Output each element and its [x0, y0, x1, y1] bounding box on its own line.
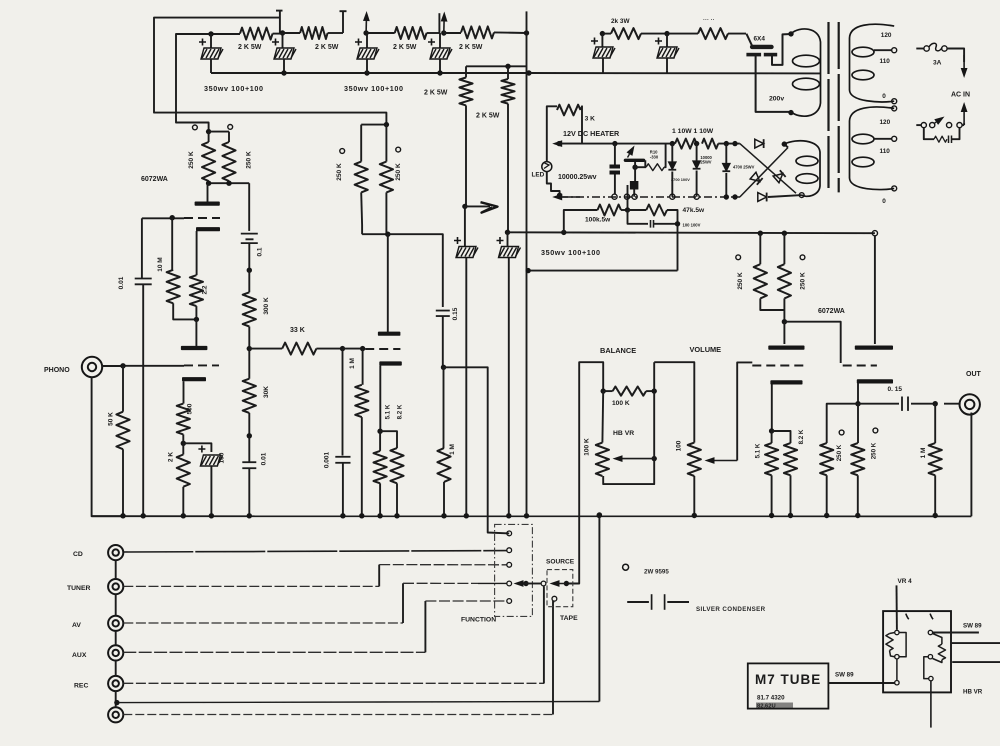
svg-text:0.01: 0.01 — [260, 452, 267, 465]
resistor R18 30K — [248, 349, 250, 379]
VR box internals right — [928, 630, 932, 634]
wire TAPE line — [123, 714, 553, 716]
wire R9 R10 bottoms tie — [209, 182, 250, 184]
svg-text:2k 3W: 2k 3W — [611, 18, 630, 25]
svg-text:1 M: 1 M — [349, 358, 356, 369]
resistor R34 5.1K — [771, 431, 773, 443]
node T4 cathode junction — [855, 401, 860, 406]
jack PHONO — [82, 357, 102, 377]
wire phono to grid — [102, 365, 124, 367]
node tube2 cathode junction — [377, 429, 382, 434]
svg-text:6072WA: 6072WA — [818, 308, 845, 315]
svg-text:8.2 K: 8.2 K — [798, 429, 805, 444]
svg-text:SOURCE: SOURCE — [546, 559, 575, 566]
svg-text:2 K 5W: 2 K 5W — [393, 44, 417, 51]
svg-text:4700 25WV: 4700 25WV — [733, 165, 755, 170]
node C junction with up arrow — [363, 30, 368, 35]
wire volume wiper to grid T3 — [737, 362, 752, 460]
tube U1b grid — [184, 364, 219, 366]
svg-text:100 K: 100 K — [612, 400, 630, 407]
resistor R29 100k.5w — [564, 210, 598, 232]
svg-text:-330: -330 — [650, 155, 659, 160]
resistor R4 2K5W — [444, 32, 461, 34]
transformer heater winding — [784, 141, 820, 197]
VR box external wires — [951, 642, 1000, 644]
wire source to balance riser — [566, 362, 603, 583]
svg-text:250 K: 250 K — [737, 272, 744, 290]
capacitor C12 0.15 coupling — [436, 310, 450, 312]
node T3 plate feed — [782, 319, 787, 324]
wire bridge to heater winding — [784, 144, 788, 147]
svg-text:0.15: 0.15 — [452, 307, 459, 320]
wire phono ground — [92, 377, 123, 517]
capacitor C16 branch — [628, 210, 649, 224]
capacitor C6 360wv (electrolytic) — [505, 230, 510, 235]
resistor R17 33K — [249, 348, 282, 350]
resistor R12 2.2 (cathode) — [190, 275, 203, 306]
wire balance to volume — [653, 362, 655, 391]
svg-text:5.1 K: 5.1 K — [385, 404, 392, 419]
svg-text:CD: CD — [73, 551, 83, 558]
resistor R16 300K — [248, 270, 250, 292]
resistor R25 3K — [557, 105, 581, 116]
svg-text:8.2 K: 8.2 K — [396, 404, 403, 419]
svg-text:PHONO: PHONO — [44, 367, 70, 374]
diode D8 bridge diag2 — [773, 170, 785, 182]
wire tube2 plate drop — [387, 234, 389, 332]
node cathode junction — [181, 441, 186, 446]
jack CD — [108, 545, 123, 560]
capacitor C2 350wv (electrolytic) — [282, 33, 284, 48]
svg-text:250 K: 250 K — [188, 151, 195, 169]
svg-text:SW 89: SW 89 — [963, 623, 982, 630]
heater return bus dash-dot — [562, 196, 580, 198]
resistor R8 2K5W vertical — [507, 66, 509, 79]
svg-text:AV: AV — [72, 622, 81, 629]
capacitor C4 350wv (electrolytic) — [439, 33, 441, 48]
balance pot body — [601, 391, 604, 443]
transformer HV winding — [791, 29, 821, 116]
wire M7 to VR box — [828, 682, 894, 684]
node E junction centre — [524, 30, 529, 35]
wire plate feed to 0.15 riser — [388, 234, 443, 307]
svg-text:250 K: 250 K — [836, 444, 843, 461]
wire ground return line — [119, 702, 599, 703]
svg-text:6072WA: 6072WA — [141, 176, 168, 183]
tube U4 cathode — [857, 379, 893, 383]
svg-text:12V DC HEATER: 12V DC HEATER — [563, 129, 620, 138]
capacitor C5 360wv (electrolytic) — [464, 206, 466, 246]
tube U2 grid — [365, 348, 400, 350]
capacitor C13 10000 25wv — [614, 144, 616, 165]
svg-text:3 K: 3 K — [585, 116, 595, 123]
svg-text:33 K: 33 K — [290, 327, 305, 334]
wire rectifier output riser — [627, 185, 629, 210]
svg-text:250 K: 250 K — [395, 163, 402, 181]
terminal circle 2W9595 — [623, 564, 629, 570]
svg-text:HB VR: HB VR — [613, 430, 634, 437]
node stray dot — [247, 268, 252, 273]
wire node-B stub to top tick — [276, 10, 283, 12]
wire 6X4 right to HV top — [772, 34, 791, 65]
wire centre vertical long — [526, 33, 528, 515]
jack TUNER — [108, 579, 123, 594]
heater bus top y143 with left arrow — [562, 143, 580, 145]
pass transistor emitter arrow — [628, 154, 630, 157]
svg-text:REC: REC — [74, 683, 88, 690]
diode D5 bridge top — [755, 139, 764, 148]
node D junction with up arrow — [441, 30, 446, 35]
power switch — [916, 124, 921, 126]
svg-text:350wv 100+100: 350wv 100+100 — [541, 248, 601, 257]
tube U2 plate — [378, 332, 401, 336]
resistor R14 500 cathode — [177, 404, 190, 435]
node U1b plate junction — [194, 317, 199, 322]
zener D1 black — [634, 167, 636, 181]
resistor R38 1M — [934, 404, 936, 443]
HV centre tap wire y73 — [529, 72, 821, 74]
svg-text:100: 100 — [219, 452, 226, 463]
capacitor C1 350wv (electrolytic) — [210, 34, 212, 48]
svg-text:2 K 5W: 2 K 5W — [424, 90, 448, 97]
silver condenser symbol — [627, 601, 649, 603]
wire heater bus mid — [626, 143, 672, 145]
balance pot bottom loop — [603, 391, 654, 484]
resistor R31 100K balance — [601, 388, 606, 393]
wire fuse to AC IN arrow — [947, 49, 964, 63]
function contacts — [507, 531, 512, 536]
wire plate to T4 grid — [784, 322, 840, 363]
capacitor C8 100 (electrolytic bypass) — [183, 443, 211, 452]
svg-text:300 K: 300 K — [263, 297, 270, 315]
source wiper arrow — [564, 581, 569, 586]
svg-text:0.01: 0.01 — [118, 276, 125, 289]
wire REC line — [123, 682, 544, 684]
resistor R33 250K — [783, 233, 785, 264]
tube U1a plate — [207, 183, 209, 202]
node 33K junction — [247, 346, 252, 351]
function wiper arrow — [523, 581, 528, 586]
tube U3 grid — [752, 365, 804, 367]
node 100k junction — [625, 207, 630, 212]
svg-text:350wv 100+100: 350wv 100+100 — [204, 84, 264, 93]
wire B+ node-A routing (inner top-left loop) — [176, 34, 211, 132]
tube U1a grid — [184, 217, 220, 219]
selector FUNCTION box — [495, 524, 533, 616]
wire to dropper resistors — [466, 65, 527, 67]
resistor R26 regulator — [632, 165, 637, 170]
LED indicator circle — [542, 162, 552, 172]
resistor R28 1 10W — [702, 139, 718, 149]
svg-text:10 M: 10 M — [157, 257, 164, 271]
pass transistor bar — [624, 159, 646, 162]
resistor R3 2K5W — [366, 32, 395, 34]
wire B+ node-B routing (outer top-left loop) — [154, 18, 386, 125]
capacitor C7 0.01 grid cap — [141, 218, 143, 278]
resistor R2 2K5W — [283, 32, 301, 34]
fuse 3A — [916, 48, 924, 50]
svg-text:2W 9595: 2W 9595 — [644, 569, 669, 576]
svg-text:2 K 5W: 2 K 5W — [476, 113, 500, 120]
VR box top prongs — [906, 614, 909, 620]
node R6 junction — [664, 31, 669, 36]
node T3 cathode junction — [769, 428, 774, 433]
resistor R7 2K5W vertical — [465, 66, 467, 77]
wire 47k branch riser — [677, 224, 679, 271]
diode D7 bridge diag — [750, 172, 762, 184]
resistor R32 250K — [759, 233, 761, 264]
svg-text:1 M: 1 M — [449, 444, 456, 455]
wire TUNER line — [123, 585, 379, 587]
jack OUT — [960, 394, 980, 414]
resistor R22 1M output load — [443, 367, 445, 448]
svg-text:200v: 200v — [769, 96, 784, 103]
terminal circle B+ right end — [872, 231, 877, 236]
svg-text:AC IN: AC IN — [951, 92, 970, 99]
node output junction — [933, 401, 938, 406]
svg-text:2.2: 2.2 — [202, 285, 209, 294]
svg-text:81.7 4320: 81.7 4320 — [757, 695, 785, 702]
svg-text:0.1: 0.1 — [257, 247, 264, 256]
svg-text:2 K 5W: 2 K 5W — [315, 44, 339, 51]
diode D2 heater — [671, 144, 673, 163]
tube U4 grid — [843, 365, 877, 367]
wire to function selector — [444, 367, 510, 533]
node A junction — [208, 31, 213, 36]
svg-text:250 K: 250 K — [246, 151, 253, 169]
tube U4 plate — [874, 236, 876, 344]
resistor R30 47k.5w — [628, 209, 647, 211]
node tube2 grid input — [340, 346, 345, 351]
svg-text:LED: LED — [532, 172, 545, 179]
resistor R36 250K — [827, 404, 858, 443]
tube U3 plate — [783, 322, 785, 344]
node B junction — [280, 30, 285, 35]
volume pot body — [688, 443, 701, 476]
svg-text:··· ··: ··· ·· — [703, 18, 715, 24]
wire out ground riser — [970, 413, 972, 517]
svg-text:TAPE: TAPE — [560, 615, 578, 622]
resistor R10 250K — [228, 132, 230, 142]
svg-text:30K: 30K — [263, 386, 270, 398]
svg-text:500: 500 — [186, 403, 193, 414]
resistor R6 — [698, 28, 728, 39]
svg-text:10000.25wv: 10000.25wv — [558, 174, 597, 181]
svg-text:SW 89: SW 89 — [835, 672, 854, 679]
tube U1a cathode — [196, 227, 220, 231]
svg-text:1 M: 1 M — [920, 448, 927, 459]
svg-text:AUX: AUX — [72, 652, 87, 659]
svg-text:120: 120 — [880, 119, 891, 126]
svg-text:BALANCE: BALANCE — [600, 346, 636, 355]
transformer primary B taps — [892, 106, 897, 111]
capacitor C11 0.001 — [342, 349, 344, 456]
svg-text:120: 120 — [881, 32, 892, 39]
svg-text:HB VR: HB VR — [963, 689, 983, 696]
svg-text:25WV: 25WV — [700, 160, 711, 165]
svg-text:110: 110 — [880, 58, 891, 65]
switch RC snubber — [924, 128, 934, 139]
svg-text:2 K 5W: 2 K 5W — [238, 44, 262, 51]
balance pot wiper arrow — [652, 456, 657, 461]
svg-text:0. 15: 0. 15 — [888, 386, 903, 393]
svg-text:M7 TUBE: M7 TUBE — [755, 672, 821, 687]
resistor R37 250K — [857, 404, 859, 443]
svg-text:100 K: 100 K — [584, 438, 591, 456]
wire centre vertical stub up — [526, 11, 528, 33]
tube U1 top pin circles — [193, 125, 198, 130]
svg-text:350wv 100+100: 350wv 100+100 — [344, 84, 404, 93]
resistor R27 1 10W — [670, 141, 675, 146]
VR box internals left — [895, 630, 899, 634]
svg-text:0: 0 — [882, 198, 886, 205]
wire wiper to source — [526, 583, 541, 585]
wire y270 heater-return line — [528, 270, 677, 272]
jack TAPE-IN bottom — [108, 707, 123, 722]
resistor R15 2K — [182, 443, 184, 454]
svg-text:VOLUME: VOLUME — [690, 345, 722, 354]
wire AV line — [123, 622, 403, 624]
diode D4 heater — [725, 144, 727, 164]
wire LED anode loop — [547, 106, 557, 161]
svg-text:5.1 K: 5.1 K — [755, 443, 762, 458]
wire CD line — [123, 551, 507, 552]
switch VR box — [883, 611, 951, 692]
VR box bottom stub — [930, 681, 932, 728]
jack REC — [108, 676, 123, 691]
capacitor C10 0.01 — [248, 436, 250, 462]
resistor R21 250K plate load b — [384, 122, 389, 127]
svg-text:2 K: 2 K — [168, 452, 175, 462]
svg-text:2 K 5W: 2 K 5W — [459, 44, 483, 51]
M7 TUBE box — [748, 663, 829, 708]
jack AV — [108, 616, 123, 631]
capacitor C3 350wv (electrolytic) — [366, 33, 368, 48]
arrow AC IN up — [963, 112, 965, 122]
resistor R20 250K plate load a — [361, 124, 386, 126]
capacitor C17 0.15 output — [858, 403, 899, 405]
resistor R13 50K — [122, 366, 124, 412]
svg-text:VR 4: VR 4 — [898, 578, 913, 585]
node 30K bottom — [247, 433, 252, 438]
svg-text:100k.5w: 100k.5w — [585, 217, 611, 224]
rectifier V1 6X4 — [746, 34, 752, 46]
svg-text:SILVER CONDENSER: SILVER CONDENSER — [696, 606, 766, 613]
node arrow right from R7 — [462, 204, 467, 209]
svg-text:3A: 3A — [933, 60, 942, 67]
svg-text:TUNER: TUNER — [67, 585, 91, 592]
selector SOURCE box — [547, 570, 573, 607]
svg-text:250 K: 250 K — [800, 272, 807, 290]
wire AUX line — [123, 651, 425, 653]
transformer core — [827, 22, 829, 192]
wire R2 hook up with tick — [342, 11, 344, 33]
svg-text:50 K: 50 K — [107, 412, 114, 426]
svg-text:0.001: 0.001 — [324, 451, 331, 468]
capacitor C9 0.1 coupling — [248, 183, 250, 231]
transformer primary B — [850, 107, 895, 190]
capacitor C14 350wv (electrolytic) — [601, 34, 603, 47]
transformer primary A — [850, 24, 895, 102]
wire out signal — [944, 403, 961, 405]
ground bus segment y73 right to centre vertical — [440, 72, 529, 74]
svg-text:0: 0 — [882, 93, 886, 100]
source left contact — [541, 581, 546, 586]
svg-text:250 K: 250 K — [870, 442, 877, 459]
resistor R1 2K5W — [211, 33, 240, 35]
ground bus segment y73 left — [211, 72, 440, 74]
svg-text:2700 100V: 2700 100V — [671, 177, 690, 182]
resistor R19 1M grid — [362, 349, 364, 385]
tube U3 cathode — [770, 380, 802, 384]
svg-text:OUT: OUT — [966, 371, 982, 378]
svg-text:110: 110 — [880, 148, 891, 155]
wire B+ y232 to right side — [508, 231, 875, 234]
volume pot wiper — [715, 460, 738, 462]
svg-text:1 10W 1 10W: 1 10W 1 10W — [672, 128, 714, 135]
svg-text:100 100V: 100 100V — [683, 223, 701, 228]
contact TAPE — [552, 596, 557, 601]
node 0.15 output — [441, 365, 446, 370]
jack AUX — [108, 645, 123, 660]
bridge rectifier X — [740, 144, 796, 194]
diode D6 bridge bottom — [758, 193, 767, 202]
resistor R5 2k 3W — [600, 31, 605, 36]
tube U1b cathode — [182, 377, 206, 381]
diode D3 heater — [696, 144, 698, 162]
wire R3 hook tick — [438, 13, 440, 33]
svg-text:47k.5w: 47k.5w — [683, 207, 706, 214]
node tube2 plate feed — [362, 233, 388, 235]
tube U1b plate — [181, 346, 208, 350]
svg-text:FUNCTION: FUNCTION — [461, 617, 496, 624]
resistor R35 8.2K — [772, 431, 791, 443]
resistor R24 8.2K cathode — [380, 431, 397, 448]
wire 6X4 left drop to 200v — [756, 55, 791, 112]
jack chain vertical — [115, 560, 117, 579]
ground bus y516 main — [92, 515, 972, 517]
svg-text:6X4: 6X4 — [754, 36, 766, 43]
tube U2 cathode — [379, 361, 402, 365]
svg-text:100: 100 — [675, 440, 682, 451]
resistor R23 5.1K cathode — [379, 431, 381, 451]
wire LED cathode to bus — [547, 172, 560, 196]
capacitor C15 350wv (electrolytic) — [666, 34, 668, 47]
resistor R11 10M (grid) — [171, 218, 173, 270]
transformer primary A taps — [892, 48, 897, 53]
resistor R9 250K — [206, 129, 211, 134]
svg-text:250 K: 250 K — [336, 163, 343, 181]
